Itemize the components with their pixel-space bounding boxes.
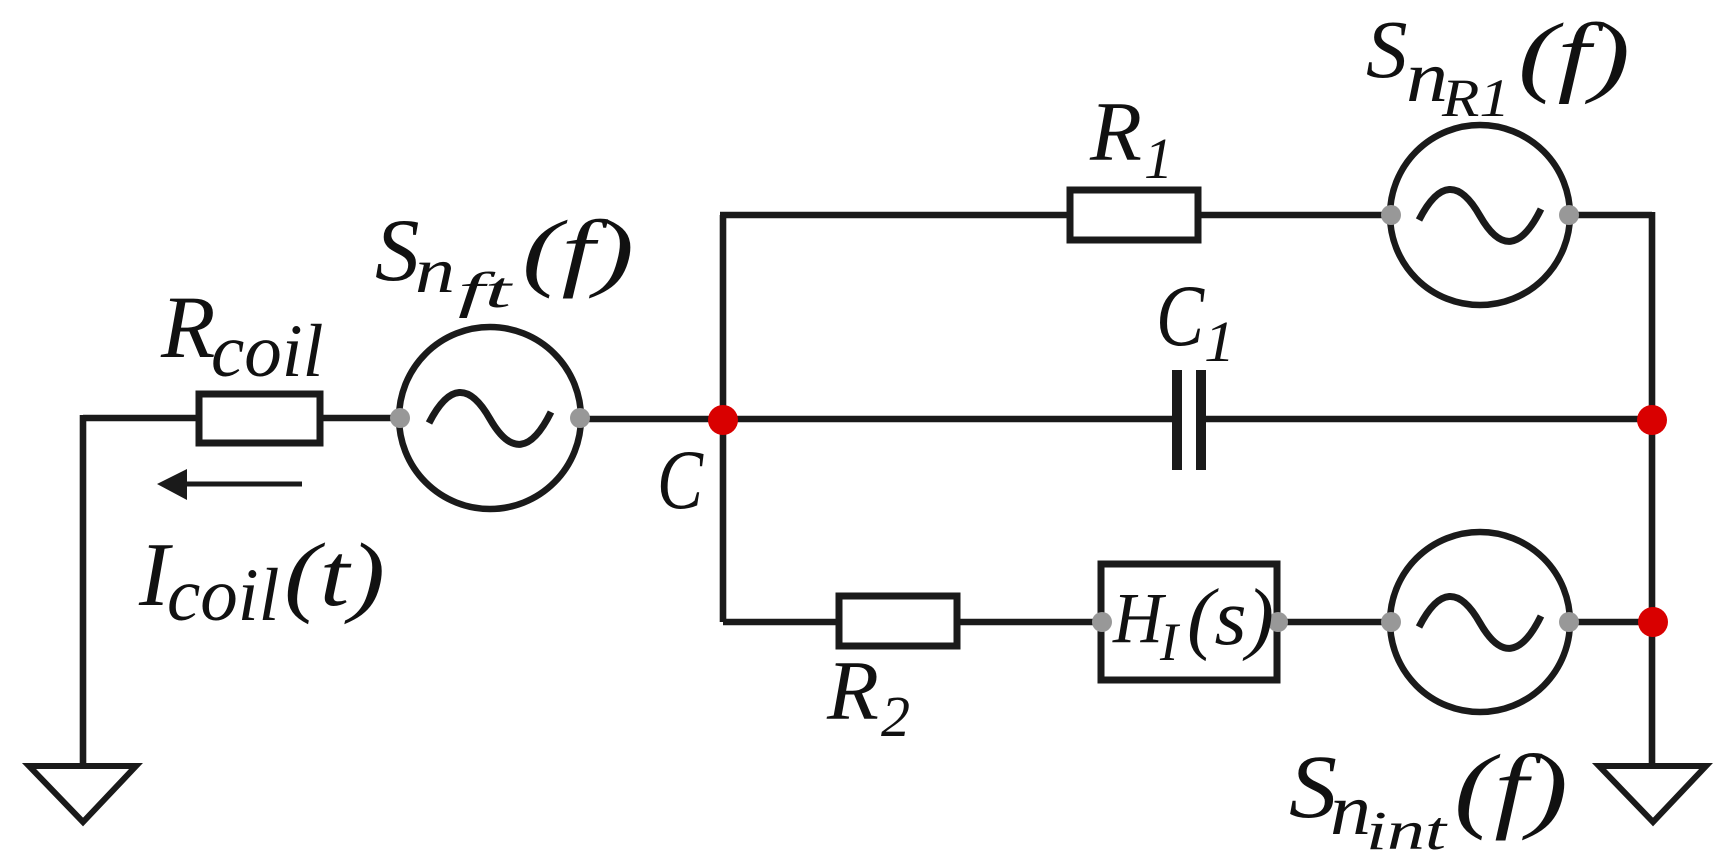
wire block HI to source Snint bbox=[1277, 619, 1393, 626]
wire source SnR1 to right rail bbox=[1567, 212, 1652, 219]
svg-text:R: R bbox=[160, 279, 215, 377]
svg-text:R1: R1 bbox=[1441, 68, 1510, 128]
svg-text:I: I bbox=[1159, 612, 1181, 672]
wire left horizontal from ground rail to Rcoil bbox=[83, 415, 199, 422]
svg-text:(f): (f) bbox=[1518, 6, 1630, 105]
svg-text:n: n bbox=[415, 235, 455, 306]
terminal dot SnR1 left bbox=[1381, 205, 1401, 225]
svg-text:S: S bbox=[375, 202, 420, 300]
wire R1 to source SnR1 bbox=[1198, 212, 1393, 219]
svg-text:n: n bbox=[1330, 770, 1371, 850]
ground left bbox=[29, 766, 136, 822]
svg-text:C: C bbox=[657, 433, 704, 527]
label SnR1(f) bbox=[1366, 3, 1630, 128]
terminal dot Snft left bbox=[390, 408, 410, 428]
label HI(s) bbox=[1112, 574, 1274, 672]
svg-text:H: H bbox=[1112, 578, 1167, 658]
block HI(s) box bbox=[1101, 564, 1277, 680]
wire right vertical rail bbox=[1649, 212, 1656, 766]
resistor R1 bbox=[1070, 190, 1198, 240]
svg-text:2: 2 bbox=[881, 684, 910, 749]
svg-text:int: int bbox=[1366, 800, 1448, 861]
label R1 bbox=[1089, 85, 1173, 191]
svg-text:R: R bbox=[826, 644, 879, 738]
svg-text:(s): (s) bbox=[1187, 574, 1274, 662]
svg-text:(f): (f) bbox=[1454, 735, 1568, 841]
label Snft(f) bbox=[375, 202, 634, 319]
terminal dot SnR1 right bbox=[1559, 205, 1579, 225]
node C red dot bbox=[708, 405, 738, 435]
svg-text:ft: ft bbox=[458, 263, 514, 319]
terminal dot HI left bbox=[1092, 612, 1112, 632]
terminal dot Snint right bbox=[1559, 612, 1579, 632]
svg-text:S: S bbox=[1366, 3, 1408, 95]
svg-text:C: C bbox=[1156, 268, 1205, 365]
label Rcoil bbox=[160, 279, 323, 393]
svg-text:1: 1 bbox=[1204, 309, 1235, 374]
label R2 bbox=[826, 644, 910, 749]
terminal dot Snint left bbox=[1381, 612, 1401, 632]
wire bottom branch: node C vertical to R2 bbox=[723, 619, 839, 626]
terminal dot HI right bbox=[1268, 612, 1288, 632]
svg-text:R: R bbox=[1089, 85, 1142, 179]
wire Rcoil to source Snft bbox=[320, 415, 402, 422]
wire source Snint to right rail bbox=[1567, 619, 1652, 626]
label C1 bbox=[1156, 268, 1235, 374]
wire middle branch: node C to capacitor C1 bbox=[723, 416, 1173, 423]
source U1 sine bbox=[429, 392, 551, 444]
wire R2 to block HI bbox=[957, 619, 1101, 626]
svg-text:(t): (t) bbox=[284, 526, 385, 625]
wire left vertical rail down to ground bbox=[80, 415, 87, 766]
wire top branch: node C to R1 bbox=[720, 212, 1070, 219]
resistor Rcoil bbox=[199, 394, 320, 443]
terminal dot Snft right bbox=[570, 408, 590, 428]
source U3 Snint circle bbox=[1390, 532, 1570, 712]
current arrow Icoil bbox=[157, 469, 302, 500]
ground right bbox=[1599, 766, 1706, 822]
source U2 SnR1 circle bbox=[1390, 125, 1570, 305]
wire source Snft to node C bbox=[578, 416, 723, 423]
wire node C vertical (top branch to bottom branch) bbox=[720, 215, 727, 622]
source U3 sine bbox=[1419, 596, 1541, 648]
svg-text:coil: coil bbox=[167, 554, 279, 637]
capacitor C1 bbox=[1177, 370, 1201, 470]
label Icoil(t) bbox=[138, 524, 385, 637]
source U2 sine bbox=[1419, 189, 1541, 241]
label Snint(f) bbox=[1289, 735, 1568, 861]
wire capacitor C1 to right rail bbox=[1205, 416, 1652, 423]
resistor R2 bbox=[839, 596, 957, 646]
svg-text:(f): (f) bbox=[522, 202, 634, 299]
svg-text:1: 1 bbox=[1144, 126, 1173, 191]
source U1 Snft circle bbox=[399, 327, 581, 509]
node right-middle red dot bbox=[1637, 405, 1667, 435]
svg-text:coil: coil bbox=[211, 310, 323, 393]
node right-bottom red dot bbox=[1638, 607, 1668, 637]
